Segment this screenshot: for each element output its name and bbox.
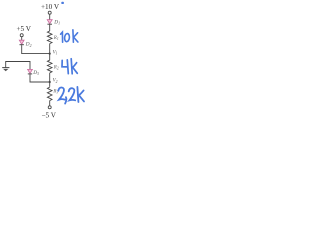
resistor R2	[47, 60, 52, 73]
value 4k (blue handwriting)	[62, 59, 77, 74]
terminal +5V	[20, 34, 23, 37]
terminal +10V	[48, 11, 51, 14]
value 10k (blue handwriting)	[61, 30, 78, 42]
node V1	[49, 53, 51, 55]
wire	[49, 44, 51, 61]
wire	[49, 73, 51, 87]
wire from D2 to node V1	[22, 45, 50, 54]
node V2	[49, 81, 51, 83]
svg-text:+5 V: +5 V	[16, 25, 31, 33]
svg-text:+10 V: +10 V	[41, 3, 60, 11]
svg-text:V2: V2	[53, 79, 58, 84]
svg-text:V1: V1	[53, 50, 58, 55]
value 2,2k (blue handwriting)	[58, 87, 84, 104]
blue stray dot	[61, 2, 64, 4]
svg-text:−5 V: −5 V	[41, 111, 56, 119]
resistor R3	[47, 87, 52, 100]
diode D2	[19, 40, 24, 45]
wire	[49, 14, 51, 20]
wire	[49, 25, 51, 31]
svg-text:R1: R1	[53, 36, 59, 41]
ground	[2, 68, 9, 72]
svg-text:R2: R2	[53, 65, 59, 70]
resistor R1	[47, 31, 52, 44]
terminal -5V	[48, 106, 51, 109]
wire ground to D3	[6, 62, 30, 70]
wire	[49, 101, 51, 106]
wire	[21, 37, 23, 41]
diode D1	[47, 20, 52, 25]
diode D3	[28, 69, 33, 74]
wire D3 to node V2	[30, 74, 50, 82]
